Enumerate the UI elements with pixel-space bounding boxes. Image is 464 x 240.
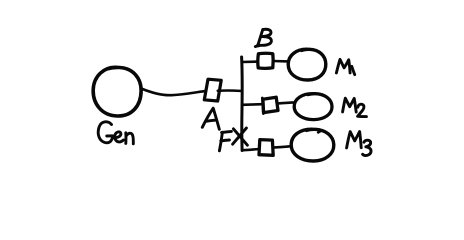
motor M1 bbox=[288, 49, 326, 80]
wire breaker 2 to motor M2 bbox=[278, 102, 294, 103]
wire bus to breaker B bbox=[242, 60, 258, 63]
label B bbox=[255, 29, 271, 46]
label F bbox=[219, 131, 231, 150]
label M3 bbox=[347, 132, 371, 156]
label M2 bbox=[343, 98, 367, 116]
label Gen bbox=[98, 122, 133, 144]
generator Gen bbox=[93, 67, 141, 116]
bus (vertical feeder) bbox=[240, 57, 244, 151]
fault X at F bbox=[233, 128, 248, 145]
label A bbox=[202, 108, 219, 129]
wire breaker A to bus bbox=[218, 89, 242, 92]
label M1 bbox=[336, 59, 354, 74]
motor M3 bbox=[291, 129, 334, 161]
breaker 3 (M3 branch) bbox=[259, 140, 273, 156]
breaker B bbox=[258, 53, 273, 68]
wire bus to breaker 3 bbox=[242, 149, 259, 150]
breaker A bbox=[204, 79, 221, 101]
motor M2 bbox=[294, 94, 332, 120]
breaker 2 (M2 branch) bbox=[262, 97, 278, 114]
wire Gen to breaker A bbox=[141, 89, 204, 96]
wire bus to breaker 2 bbox=[242, 103, 263, 106]
wire breaker 3 to motor M3 bbox=[273, 146, 291, 147]
wire breaker B to motor M1 bbox=[273, 60, 288, 63]
